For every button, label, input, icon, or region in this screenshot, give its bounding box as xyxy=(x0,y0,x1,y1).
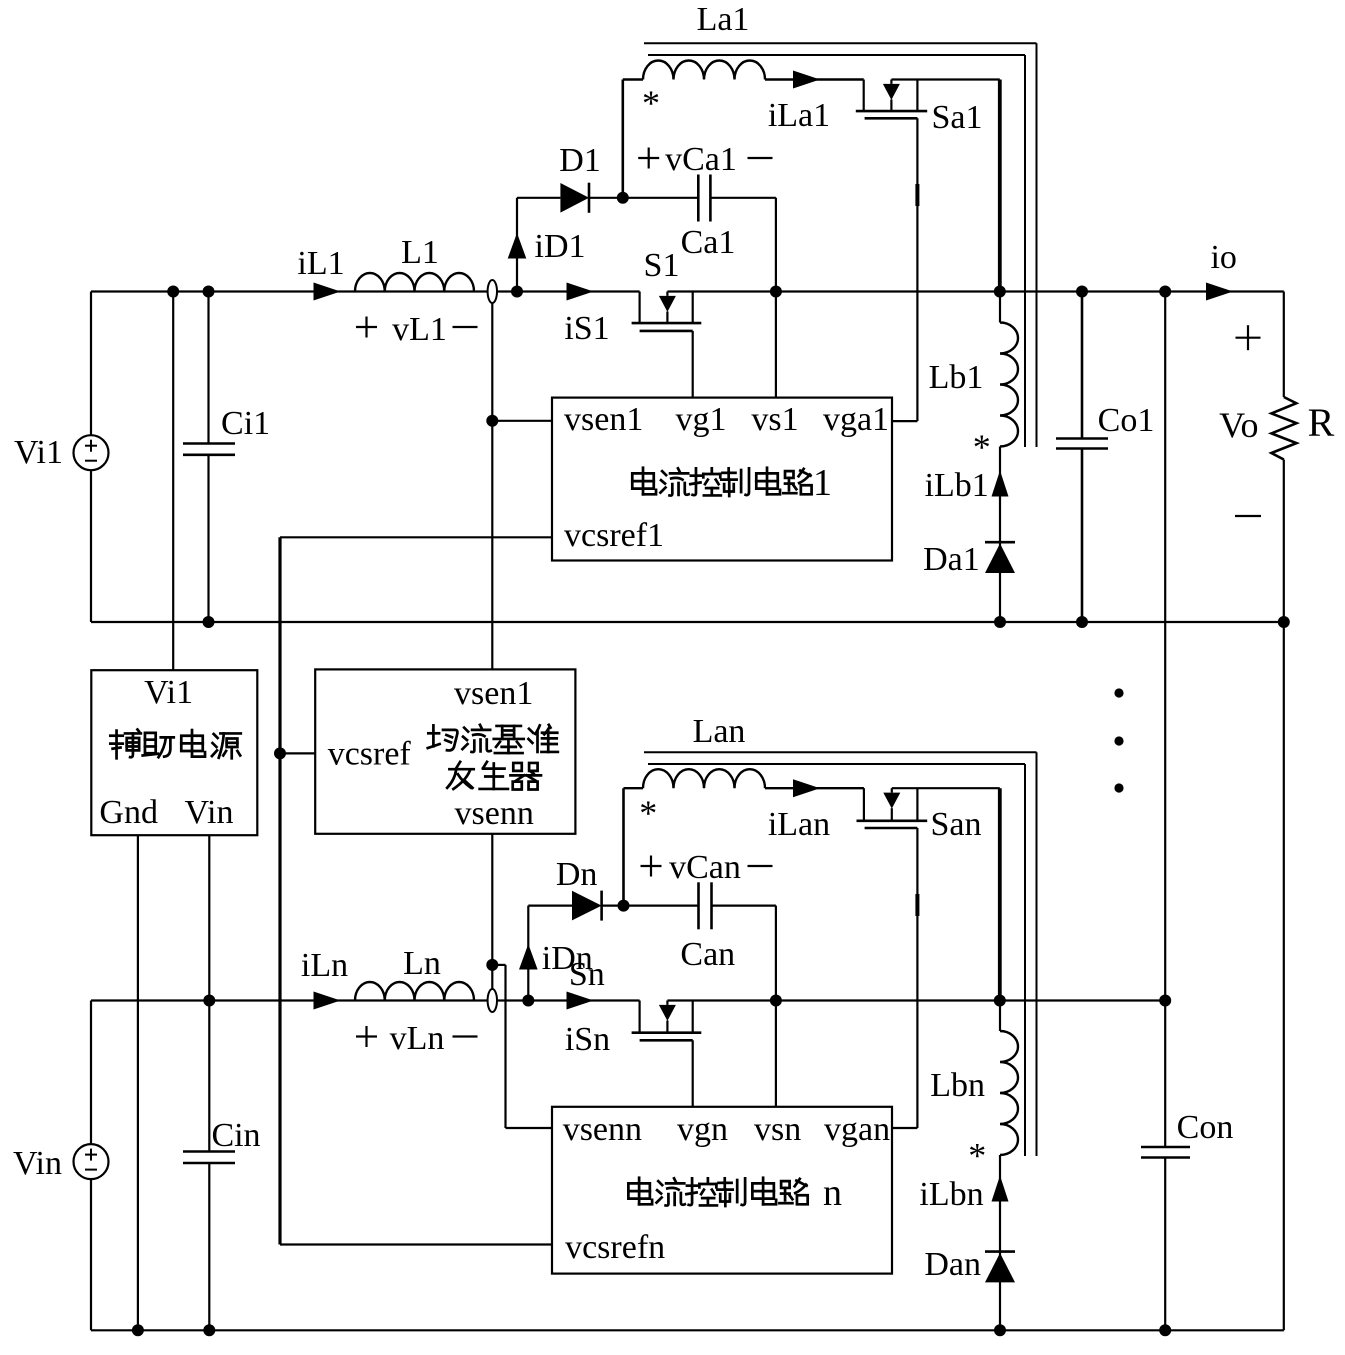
wire Sa1 gate line xyxy=(916,118,918,421)
wire La1 left terminal xyxy=(621,80,624,198)
wire vsenn sense line xyxy=(491,834,493,989)
aux supply box 辅助电源 xyxy=(91,670,257,835)
wire top ground rail xyxy=(91,621,1284,623)
svg-text:vgan: vgan xyxy=(824,1111,890,1148)
control box 1 电流控制电路1 xyxy=(552,398,892,561)
wire D1 anode xyxy=(517,197,560,199)
wire Can right lead xyxy=(712,904,776,906)
current arrow iDn xyxy=(519,944,538,970)
node Da1 to rail xyxy=(994,616,1006,628)
inductor Lbn xyxy=(999,1001,1001,1032)
wire vsen1 sense line xyxy=(491,303,493,669)
wire vga1 into control box xyxy=(892,420,917,422)
coupled core bars Lan-Lbn xyxy=(644,751,1037,753)
svg-text:vsen1: vsen1 xyxy=(564,401,643,438)
svg-text:iLbn: iLbn xyxy=(919,1176,983,1213)
wire vgan into control box xyxy=(892,1127,917,1129)
capacitor Cin xyxy=(208,1001,210,1152)
svg-text:1: 1 xyxy=(813,462,832,504)
svg-text:Dn: Dn xyxy=(556,856,598,893)
current sense loop phase n xyxy=(488,989,497,1012)
wire bottom input rail left segment xyxy=(91,999,640,1001)
svg-text:R: R xyxy=(1308,400,1335,445)
node S1 source rail junction xyxy=(770,286,782,298)
wire aux supply feed xyxy=(172,292,174,671)
wire right edge down xyxy=(1283,622,1285,1330)
current arrow iSn xyxy=(567,992,594,1010)
wire Gnd pin down xyxy=(137,835,139,1330)
diode Da1 xyxy=(985,541,1015,544)
svg-text:Ca1: Ca1 xyxy=(681,224,736,261)
svg-text:*: * xyxy=(642,83,660,123)
label 辅助电源 xyxy=(110,729,141,758)
current sense loop phase1 xyxy=(488,280,497,303)
node Co1 bottom xyxy=(1076,616,1088,628)
svg-text:vga1: vga1 xyxy=(823,401,889,438)
label +vCan- xyxy=(641,865,662,867)
label 均流基准 xyxy=(428,725,458,750)
label +vL1- xyxy=(356,326,377,328)
current arrow iL1 xyxy=(314,283,341,301)
svg-text:Vin: Vin xyxy=(185,794,234,831)
svg-text:Lbn: Lbn xyxy=(930,1067,985,1104)
svg-text:Con: Con xyxy=(1177,1109,1234,1146)
svg-text:n: n xyxy=(823,1172,842,1214)
svg-text:vsenn: vsenn xyxy=(563,1111,642,1148)
node Dn-Can-Lan junction xyxy=(618,900,630,912)
label 电流控制电路1 xyxy=(632,468,656,495)
svg-text:Vin: Vin xyxy=(13,1145,62,1182)
coupled core bars La1-Lb1 xyxy=(644,42,1037,44)
node output bus mid xyxy=(1159,995,1171,1007)
svg-text:iLn: iLn xyxy=(301,947,348,984)
capacitor Con xyxy=(1141,1146,1190,1149)
wire Vin pin down xyxy=(208,835,210,1000)
inductor Ln xyxy=(355,982,474,1001)
wire vgn gate to control box xyxy=(692,1040,694,1107)
wire iDn riser xyxy=(527,906,529,1001)
capacitor Ci1 xyxy=(207,292,209,444)
capacitor Ca1 xyxy=(697,175,700,222)
inductor Lb1 xyxy=(999,292,1001,323)
wire bottom ground rail xyxy=(91,1329,1284,1331)
wire bottom input rail right segment xyxy=(667,999,1165,1001)
label +vCa1- xyxy=(638,157,659,159)
wire vsen1 branch to control box xyxy=(492,420,552,422)
wire Dn cathode to node xyxy=(602,904,624,906)
svg-text:vgn: vgn xyxy=(677,1111,728,1148)
wire San source drop xyxy=(998,788,1002,1000)
svg-text:D1: D1 xyxy=(559,142,601,179)
wire Lan to San xyxy=(765,787,864,789)
svg-text:L1: L1 xyxy=(401,234,439,271)
current arrow iLa1 xyxy=(793,71,820,89)
svg-text:iLan: iLan xyxy=(768,806,830,843)
node Dan to rail xyxy=(994,1324,1006,1336)
svg-text:Can: Can xyxy=(680,936,735,973)
svg-text:vCan: vCan xyxy=(669,849,741,886)
transistor Sn xyxy=(638,1001,640,1033)
wire output bus vertical xyxy=(1164,292,1166,1148)
node San-Lbn junction xyxy=(994,995,1006,1007)
wire D1 cathode to node xyxy=(589,197,623,199)
inductor Lan xyxy=(624,787,644,789)
wire iD1 riser xyxy=(516,198,518,292)
svg-text:Cin: Cin xyxy=(211,1117,260,1154)
svg-text:iD1: iD1 xyxy=(535,228,586,265)
svg-text:Ci1: Ci1 xyxy=(221,405,270,442)
svg-text:vL1: vL1 xyxy=(392,311,447,348)
svg-text:Ln: Ln xyxy=(403,945,441,982)
svg-text:Dan: Dan xyxy=(924,1246,981,1283)
capacitor Can xyxy=(697,882,700,929)
wire Sa1 source drop xyxy=(998,80,1002,292)
svg-text:*: * xyxy=(973,427,991,467)
node Vin pin junction xyxy=(203,995,215,1007)
wire vsenn branch xyxy=(492,964,505,966)
label 电流控制电路n xyxy=(628,1178,652,1205)
wire vsn to control box xyxy=(775,1001,777,1107)
node Cin bottom xyxy=(203,1324,215,1336)
capacitor Co1 xyxy=(1081,292,1084,439)
svg-text:Lan: Lan xyxy=(693,713,746,750)
wire vcsref1 to bus xyxy=(280,536,552,538)
inductor L1 xyxy=(355,273,474,292)
current arrow iLb1 xyxy=(992,471,1009,497)
wire vs1 to control box xyxy=(775,292,777,398)
node vsen1 tap xyxy=(486,415,498,427)
node Ci1 bottom xyxy=(203,616,215,628)
svg-text:Gnd: Gnd xyxy=(99,794,158,831)
svg-text:vsn: vsn xyxy=(754,1111,801,1148)
label Vo minus xyxy=(1235,515,1261,517)
svg-text:iLb1: iLb1 xyxy=(925,467,989,504)
wire San drain top xyxy=(892,787,1000,789)
current arrow iS1 xyxy=(567,283,594,301)
svg-text:*: * xyxy=(639,793,657,833)
current arrow io xyxy=(1206,283,1233,301)
wire Can left lead xyxy=(624,904,699,906)
wire vcsref stub to generator xyxy=(280,752,315,754)
svg-text:vLn: vLn xyxy=(390,1020,445,1057)
diode Dn xyxy=(572,891,602,921)
svg-text:Da1: Da1 xyxy=(923,541,980,578)
svg-text:iSn: iSn xyxy=(565,1021,610,1058)
svg-text:S1: S1 xyxy=(644,247,680,284)
svg-text:Sn: Sn xyxy=(569,956,605,993)
ellipsis dots xyxy=(1114,688,1123,697)
svg-text:vsenn: vsenn xyxy=(455,795,534,832)
svg-text:Lb1: Lb1 xyxy=(929,359,984,396)
node L1 output node xyxy=(511,286,523,298)
transistor San xyxy=(863,788,865,821)
wire Lan left terminal xyxy=(622,788,625,905)
svg-text:Co1: Co1 xyxy=(1098,402,1155,439)
voltage source Vin xyxy=(90,1001,92,1145)
wire Ca1 right lead xyxy=(710,197,776,199)
node Sa1-Lb1 junction xyxy=(994,286,1006,298)
transistor S1 xyxy=(638,292,640,324)
current arrow iLan xyxy=(793,779,820,797)
label 发生器 xyxy=(447,762,474,789)
svg-text:Vi1: Vi1 xyxy=(14,434,63,471)
resistor R xyxy=(1283,292,1285,398)
svg-text:iLa1: iLa1 xyxy=(768,97,830,134)
svg-text:La1: La1 xyxy=(697,1,750,38)
svg-text:vs1: vs1 xyxy=(751,401,798,438)
node vsenn tap xyxy=(486,959,498,971)
svg-text:vg1: vg1 xyxy=(676,401,727,438)
diode D1 xyxy=(560,183,589,213)
node Ln output node xyxy=(522,995,534,1007)
node D1-Ca1-La1 junction xyxy=(617,192,629,204)
inductor La1 xyxy=(623,78,643,80)
transistor Sa1 xyxy=(863,80,865,112)
current arrow iD1 xyxy=(508,233,527,259)
label +vLn- xyxy=(356,1035,377,1037)
wire Sa1 drain top xyxy=(891,78,999,80)
svg-text:iL1: iL1 xyxy=(297,245,344,282)
node vcsref tap xyxy=(274,747,286,759)
svg-text:vCa1: vCa1 xyxy=(665,141,737,178)
wire San gate line xyxy=(916,828,918,1128)
svg-text:*: * xyxy=(968,1136,986,1176)
wire top input rail left segment xyxy=(91,290,640,292)
svg-text:Sa1: Sa1 xyxy=(932,99,983,136)
control box n 电流控制电路n xyxy=(552,1107,892,1274)
svg-text:vcsrefn: vcsrefn xyxy=(565,1229,665,1266)
svg-text:io: io xyxy=(1210,239,1236,276)
node aux feed junction xyxy=(167,286,179,298)
wire top input rail right segment xyxy=(667,290,1283,292)
node output bus top xyxy=(1159,286,1171,298)
wire Lbn to Dan xyxy=(999,1155,1001,1330)
svg-text:Vo: Vo xyxy=(1219,405,1258,445)
svg-text:vcsref1: vcsref1 xyxy=(564,517,664,554)
current arrow iLn xyxy=(314,992,341,1010)
wire vcsrefn to bus xyxy=(280,1243,552,1245)
node Co1 top xyxy=(1076,286,1088,298)
node Sn source rail junction xyxy=(770,995,782,1007)
svg-text:vcsref: vcsref xyxy=(328,736,412,773)
svg-text:San: San xyxy=(931,806,982,843)
wire Dn anode xyxy=(528,904,572,906)
svg-text:iS1: iS1 xyxy=(564,310,609,347)
wire vcsref bus xyxy=(278,537,281,1244)
node R bottom junction xyxy=(1278,616,1290,628)
generator box 均流基准发生器 xyxy=(315,669,575,833)
wire Ca1 left lead xyxy=(623,197,699,199)
node Gnd bottom xyxy=(132,1324,144,1336)
wire vg1 gate to control box xyxy=(692,331,694,398)
label Vo plus xyxy=(1236,337,1261,339)
current arrow iLbn xyxy=(992,1176,1009,1202)
svg-text:vsen1: vsen1 xyxy=(454,675,533,712)
node Con bottom xyxy=(1159,1324,1171,1336)
svg-text:Vi1: Vi1 xyxy=(144,674,193,711)
voltage source Vi1 xyxy=(90,292,92,436)
wire La1 to Sa1 xyxy=(765,78,864,80)
wire Lb1 to Da1 xyxy=(999,447,1001,623)
node Ci1 top xyxy=(203,286,215,298)
diode Dan xyxy=(985,1250,1015,1253)
